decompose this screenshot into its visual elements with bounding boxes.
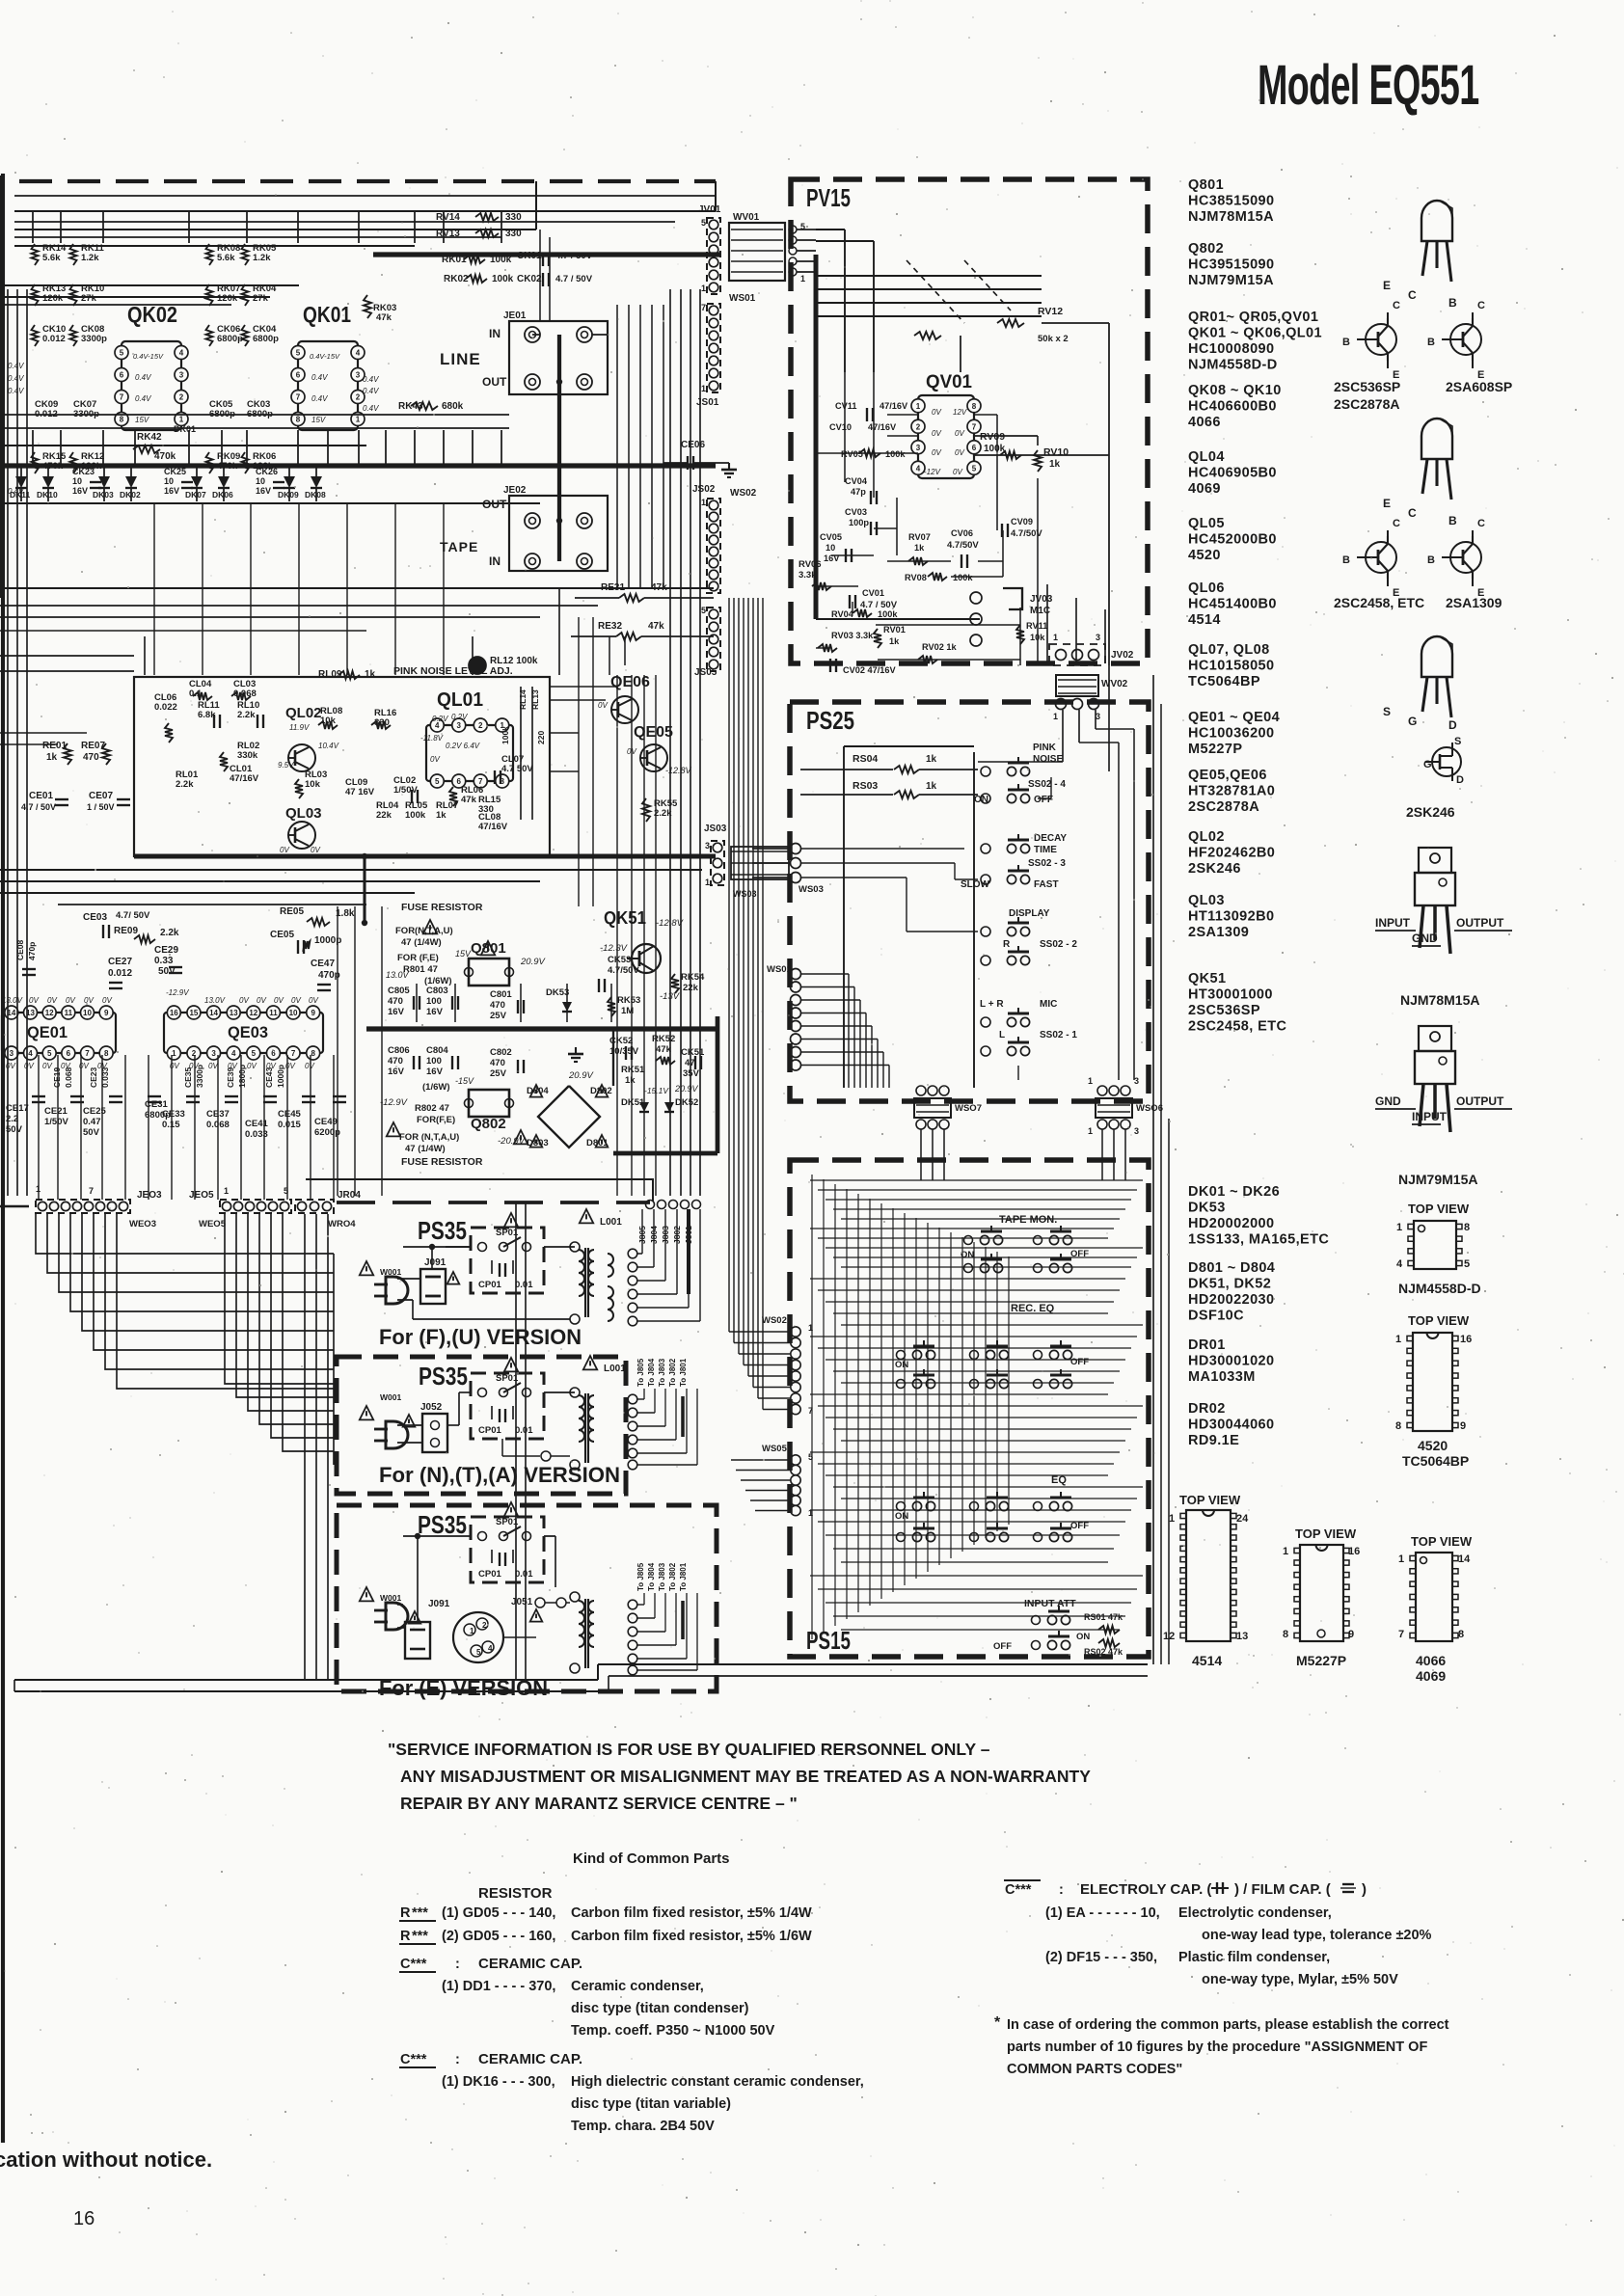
svg-text:To J805: To J805 <box>636 1358 645 1387</box>
svg-text:16V: 16V <box>426 1007 444 1017</box>
svg-text:QK51: QK51 <box>604 908 646 928</box>
svg-text:TOP VIEW: TOP VIEW <box>1411 1534 1473 1549</box>
svg-text:4066: 4066 <box>1188 415 1221 430</box>
svg-text:To J801: To J801 <box>679 1562 688 1591</box>
svg-text:FOR (N,T,A,U): FOR (N,T,A,U) <box>399 1132 459 1143</box>
svg-text:-12.9V: -12.9V <box>166 988 189 997</box>
svg-text:C806: C806 <box>388 1045 410 1056</box>
svg-text:CE45: CE45 <box>278 1109 301 1120</box>
svg-text:RV06: RV06 <box>798 559 822 570</box>
svg-text:Ceramic condenser,: Ceramic condenser, <box>571 1979 704 1994</box>
svg-text:47/16V: 47/16V <box>868 422 897 432</box>
svg-text:10: 10 <box>289 1009 298 1017</box>
svg-text:CE47: CE47 <box>311 959 335 969</box>
svg-text:JR04: JR04 <box>338 1190 361 1201</box>
svg-text::: : <box>455 2052 460 2067</box>
svg-text:DSF10C: DSF10C <box>1188 1309 1244 1324</box>
svg-text:3: 3 <box>916 444 921 452</box>
svg-text:12: 12 <box>1163 1631 1175 1642</box>
svg-text:HT30001000: HT30001000 <box>1188 987 1273 1003</box>
svg-text:HT328781A0: HT328781A0 <box>1188 784 1275 799</box>
svg-text:0V: 0V <box>309 996 318 1005</box>
svg-text:16: 16 <box>1348 1546 1360 1557</box>
svg-text:QL01: QL01 <box>437 689 483 711</box>
svg-text:100: 100 <box>426 1056 442 1067</box>
svg-text:0.4V: 0.4V <box>363 375 379 384</box>
svg-text:47k: 47k <box>461 795 477 805</box>
svg-text:HC406600B0: HC406600B0 <box>1188 399 1277 415</box>
svg-text:QL05: QL05 <box>1188 516 1225 531</box>
svg-text:2: 2 <box>482 1621 487 1630</box>
svg-text:OUTPUT: OUTPUT <box>1456 916 1504 930</box>
svg-text:5: 5 <box>47 1049 52 1058</box>
svg-text:L001: L001 <box>600 1217 622 1228</box>
svg-text:-11.8V: -11.8V <box>420 734 444 743</box>
svg-text:FOR(N,T,A,U): FOR(N,T,A,U) <box>395 926 453 936</box>
svg-text:13: 13 <box>230 1009 238 1017</box>
svg-text:Temp. chara. 2B4 50V: Temp. chara. 2B4 50V <box>571 2119 715 2134</box>
svg-text:330k: 330k <box>237 750 258 761</box>
svg-text:In case of ordering the c: In case of ordering the common parts, pl… <box>1007 2017 1449 2033</box>
svg-text:0.2V: 0.2V <box>432 715 448 723</box>
svg-text:4069: 4069 <box>1416 1668 1446 1684</box>
svg-text:7: 7 <box>1398 1629 1404 1640</box>
svg-text:REPAIR BY ANY MARANTZ SERVICE: REPAIR BY ANY MARANTZ SERVICE CENTRE – " <box>400 1794 798 1813</box>
svg-text:(1) EA - - - - - - 10,: (1) EA - - - - - - 10, <box>1045 1905 1160 1921</box>
svg-text:JV03: JV03 <box>1030 594 1053 605</box>
svg-text:1: 1 <box>701 498 706 507</box>
svg-text:CK01: CK01 <box>517 251 542 261</box>
svg-text:1: 1 <box>1053 712 1058 721</box>
svg-text:47k: 47k <box>376 312 392 323</box>
svg-text:15V: 15V <box>311 416 326 424</box>
svg-text:ON: ON <box>895 1511 908 1522</box>
svg-text:2SC2878A: 2SC2878A <box>1188 799 1259 815</box>
svg-text:RV14: RV14 <box>436 212 460 223</box>
svg-text:M5227P: M5227P <box>1188 742 1242 757</box>
svg-text:1k: 1k <box>1049 459 1061 470</box>
svg-text:WEO5: WEO5 <box>199 1219 227 1229</box>
svg-text:4: 4 <box>356 349 361 358</box>
svg-text:7: 7 <box>291 1049 296 1058</box>
svg-text:6: 6 <box>120 371 124 380</box>
svg-text:SLOW: SLOW <box>961 879 990 890</box>
svg-text:CV02 47/16V: CV02 47/16V <box>843 665 897 675</box>
svg-text:120k: 120k <box>42 293 64 304</box>
svg-text:5: 5 <box>120 349 124 358</box>
svg-text:4.7 50V: 4.7 50V <box>501 764 533 774</box>
svg-text:RE31: RE31 <box>601 582 625 593</box>
svg-text:10: 10 <box>164 476 174 486</box>
svg-text:-15V: -15V <box>455 1076 474 1086</box>
svg-text:To J801: To J801 <box>679 1358 688 1387</box>
svg-text:CP01: CP01 <box>478 1280 501 1290</box>
svg-text:2SA608SP: 2SA608SP <box>1446 379 1512 394</box>
svg-text:47 (1/4W): 47 (1/4W) <box>405 1144 446 1154</box>
svg-text:6: 6 <box>972 444 977 452</box>
svg-text:QK51: QK51 <box>1188 971 1226 986</box>
svg-text:16V: 16V <box>426 1067 444 1077</box>
svg-text:WRO4: WRO4 <box>328 1219 356 1229</box>
svg-text:47 (1/4W): 47 (1/4W) <box>401 937 442 948</box>
svg-text:20.9V: 20.9V <box>674 1084 699 1094</box>
svg-text:PINK NOISE LEVEL ADJ.: PINK NOISE LEVEL ADJ. <box>393 665 513 677</box>
svg-text:1/50V: 1/50V <box>393 785 418 796</box>
svg-text:RESISTOR: RESISTOR <box>478 1885 553 1902</box>
svg-text:Q801: Q801 <box>1188 177 1224 193</box>
svg-text:RV04: RV04 <box>831 609 854 619</box>
svg-text:0V: 0V <box>955 448 964 457</box>
svg-text:RK51: RK51 <box>621 1065 645 1075</box>
svg-text:-15.1V: -15.1V <box>644 1086 669 1095</box>
svg-text:470k: 470k <box>154 451 176 462</box>
svg-text:7: 7 <box>89 1186 94 1196</box>
svg-text:CE29: CE29 <box>154 945 178 956</box>
svg-text:NJM4558D-D: NJM4558D-D <box>1188 358 1278 373</box>
svg-text:0.4V: 0.4V <box>311 373 328 382</box>
svg-text:To J803: To J803 <box>658 1358 666 1387</box>
svg-text:***: *** <box>412 1929 428 1944</box>
svg-text:DK09: DK09 <box>278 490 299 500</box>
svg-text:HD20002000: HD20002000 <box>1188 1216 1274 1231</box>
svg-text:DK01 ~ DK26: DK01 ~ DK26 <box>1188 1184 1280 1200</box>
svg-text:SP01: SP01 <box>496 1228 519 1238</box>
svg-text:CP01: CP01 <box>478 1425 501 1436</box>
svg-text:Model EQ551: Model EQ551 <box>1258 55 1479 117</box>
svg-text:100k: 100k <box>492 274 514 284</box>
svg-text:4.7/50V: 4.7/50V <box>947 540 979 551</box>
svg-text:SS02 - 4: SS02 - 4 <box>1028 779 1066 790</box>
svg-text:0V: 0V <box>239 996 249 1005</box>
svg-text:SP01: SP01 <box>496 1373 519 1384</box>
svg-text:S: S <box>1383 705 1391 718</box>
svg-text:3: 3 <box>1134 1126 1139 1136</box>
svg-text:CK02: CK02 <box>517 274 542 284</box>
svg-text:DK03: DK03 <box>93 490 114 500</box>
svg-text:5: 5 <box>476 1648 481 1657</box>
svg-text:CE39: CE39 <box>226 1067 235 1088</box>
svg-text:0.068: 0.068 <box>64 1067 73 1088</box>
svg-text:B: B <box>1427 554 1435 566</box>
svg-text:NJM78M15A: NJM78M15A <box>1400 992 1479 1008</box>
svg-text:4.7 / 50V: 4.7 / 50V <box>555 251 593 261</box>
svg-text:C803: C803 <box>426 986 448 996</box>
svg-text:C: C <box>1408 288 1417 302</box>
svg-text:470: 470 <box>83 752 99 763</box>
svg-text:TOP VIEW: TOP VIEW <box>1179 1493 1241 1507</box>
svg-text:RV01: RV01 <box>883 625 906 635</box>
svg-text:3: 3 <box>1096 633 1100 642</box>
svg-text:0.012: 0.012 <box>42 334 66 344</box>
svg-text:CE03: CE03 <box>83 912 107 923</box>
svg-text:2SC536SP: 2SC536SP <box>1188 1003 1260 1018</box>
svg-text:Kind of Common Parts: Kind of Common Parts <box>573 1850 730 1867</box>
svg-text:RE32: RE32 <box>598 621 622 632</box>
svg-text:(1/6W): (1/6W) <box>422 1082 450 1093</box>
svg-text:"SERVICE INFORMATION IS FOR US: "SERVICE INFORMATION IS FOR USE BY QUALI… <box>388 1740 990 1759</box>
svg-text:3.3k: 3.3k <box>798 570 817 581</box>
svg-text:1: 1 <box>1169 1513 1175 1525</box>
svg-text:1.2k: 1.2k <box>253 253 271 263</box>
svg-text:5.6k: 5.6k <box>42 253 61 263</box>
svg-text:RL12 100k: RL12 100k <box>490 656 538 666</box>
svg-text:4514: 4514 <box>1188 612 1221 628</box>
svg-text:1k: 1k <box>926 781 937 792</box>
svg-text:HC10008090: HC10008090 <box>1188 341 1274 357</box>
svg-text:5: 5 <box>1464 1258 1470 1270</box>
svg-text:QR01~ QR05,QV01: QR01~ QR05,QV01 <box>1188 310 1318 325</box>
svg-text:0V: 0V <box>102 996 112 1005</box>
svg-text:CV06: CV06 <box>951 528 973 538</box>
svg-text:QE01: QE01 <box>27 1023 68 1041</box>
svg-text:0V: 0V <box>932 408 941 417</box>
svg-text:QL02: QL02 <box>285 705 322 721</box>
svg-text:TIME: TIME <box>1034 845 1057 855</box>
svg-text:C***: C*** <box>400 1957 427 1972</box>
svg-text:16V: 16V <box>256 486 271 496</box>
svg-text:C801: C801 <box>490 989 512 1000</box>
svg-text:B: B <box>1342 554 1350 566</box>
svg-text:JV01: JV01 <box>698 204 721 215</box>
svg-text:4: 4 <box>916 464 921 473</box>
svg-text:3: 3 <box>10 1049 14 1058</box>
svg-text:SP01: SP01 <box>496 1517 519 1527</box>
svg-text:50V: 50V <box>83 1127 100 1138</box>
svg-text:0.022: 0.022 <box>154 702 177 713</box>
svg-text:0.4V-15V: 0.4V-15V <box>310 352 340 361</box>
svg-text:16V: 16V <box>388 1007 405 1017</box>
svg-text:OFF: OFF <box>1070 1521 1089 1531</box>
svg-text:1k: 1k <box>889 636 900 646</box>
svg-text:QL03: QL03 <box>1188 893 1225 908</box>
svg-text:NJM79M15A: NJM79M15A <box>1188 273 1274 288</box>
svg-text:(1) GD05 - - - 140,: (1) GD05 - - - 140, <box>442 1905 555 1921</box>
svg-text:DK53: DK53 <box>546 987 569 998</box>
svg-text:SS02 - 3: SS02 - 3 <box>1028 858 1066 869</box>
svg-text:PS35: PS35 <box>418 1216 467 1245</box>
svg-text:(1) DD1 - - - - 370,: (1) DD1 - - - - 370, <box>442 1979 555 1994</box>
svg-text:WSO7: WSO7 <box>955 1103 982 1114</box>
svg-text:B: B <box>1448 514 1457 527</box>
svg-text:C802: C802 <box>490 1047 512 1058</box>
svg-text:2SA1309: 2SA1309 <box>1446 595 1502 610</box>
svg-text:QL06: QL06 <box>1188 581 1225 596</box>
svg-text:1k: 1k <box>46 752 58 763</box>
svg-text:1: 1 <box>1053 633 1058 642</box>
svg-text:Temp. coeff. P350 ~ N1000 50V: Temp. coeff. P350 ~ N1000 50V <box>571 2023 775 2039</box>
svg-text:HC452000B0: HC452000B0 <box>1188 532 1277 548</box>
svg-text:RK01: RK01 <box>442 255 467 265</box>
svg-text:1: 1 <box>224 1186 229 1196</box>
svg-text:HD20022030: HD20022030 <box>1188 1292 1274 1308</box>
svg-text:1SS133, MA165,ETC: 1SS133, MA165,ETC <box>1188 1232 1329 1248</box>
svg-text:ELECTROLY CAP. (: ELECTROLY CAP. ( <box>1080 1881 1211 1898</box>
svg-text:47k: 47k <box>651 582 667 593</box>
svg-text:5: 5 <box>701 606 706 615</box>
svg-text:RV13: RV13 <box>436 229 460 239</box>
svg-text:5: 5 <box>296 349 301 358</box>
svg-text:OUT: OUT <box>482 498 507 511</box>
svg-text:RK54: RK54 <box>681 972 705 983</box>
svg-text:47k: 47k <box>656 1044 672 1055</box>
svg-text:1: 1 <box>701 384 706 393</box>
svg-text:0.4V: 0.4V <box>363 404 379 413</box>
svg-text:RK42: RK42 <box>137 432 162 443</box>
svg-text:9: 9 <box>1460 1420 1466 1432</box>
svg-text:470p: 470p <box>318 970 340 981</box>
svg-text:4: 4 <box>179 349 184 358</box>
svg-text:CE41: CE41 <box>245 1119 268 1129</box>
svg-text:11.9V: 11.9V <box>289 723 310 732</box>
svg-text:disc type (titan variable): disc type (titan variable) <box>571 2096 731 2112</box>
svg-text:DK07: DK07 <box>185 490 206 500</box>
svg-text:2: 2 <box>356 393 361 402</box>
svg-text:0.4V: 0.4V <box>8 374 24 383</box>
svg-text:C***: C*** <box>1005 1882 1032 1898</box>
svg-text:FUSE RESISTOR: FUSE RESISTOR <box>401 902 483 913</box>
svg-text:cation without notice.: cation without notice. <box>0 2147 212 2172</box>
svg-text:10: 10 <box>826 543 835 553</box>
svg-text:0V: 0V <box>29 996 39 1005</box>
svg-text:-12.8V: -12.8V <box>665 766 692 775</box>
svg-text:13.0V: 13.0V <box>386 970 410 980</box>
svg-text:-13V: -13V <box>660 991 681 1002</box>
svg-text:): ) <box>1362 1881 1367 1898</box>
svg-text:25V: 25V <box>490 1068 507 1079</box>
svg-text:9.5V: 9.5V <box>278 761 294 770</box>
svg-text:To J803: To J803 <box>658 1562 666 1591</box>
svg-text:CE05: CE05 <box>270 930 294 940</box>
svg-text:5: 5 <box>435 777 440 786</box>
svg-text:0.47: 0.47 <box>83 1117 101 1127</box>
svg-text:0V: 0V <box>932 448 941 457</box>
svg-text:WSO6: WSO6 <box>1136 1103 1163 1114</box>
svg-text:HC10036200: HC10036200 <box>1188 726 1274 742</box>
svg-text:16: 16 <box>170 1009 178 1017</box>
svg-text:FOR (F,E): FOR (F,E) <box>397 953 439 963</box>
svg-text:DK02: DK02 <box>120 490 141 500</box>
svg-text:TOP VIEW: TOP VIEW <box>1295 1526 1357 1541</box>
svg-text:2SK246: 2SK246 <box>1188 861 1241 877</box>
svg-text:HC10158050: HC10158050 <box>1188 659 1274 674</box>
svg-text:PS35: PS35 <box>418 1510 467 1539</box>
svg-text:0.4V: 0.4V <box>311 394 328 403</box>
svg-text:D: D <box>1456 774 1464 786</box>
svg-text:To J805: To J805 <box>636 1562 645 1591</box>
svg-text:LINE: LINE <box>440 350 481 368</box>
svg-text:RV03 3.3k: RV03 3.3k <box>831 631 874 640</box>
svg-text:1k: 1k <box>365 669 376 680</box>
svg-text:100k: 100k <box>490 255 512 265</box>
svg-text:CE06: CE06 <box>681 440 705 450</box>
svg-text::: : <box>1059 1882 1064 1898</box>
svg-text:D: D <box>1448 718 1457 732</box>
svg-text:470: 470 <box>388 1056 403 1067</box>
svg-text:To J802: To J802 <box>668 1562 677 1591</box>
svg-text:4514: 4514 <box>1192 1653 1222 1668</box>
svg-text:16V: 16V <box>72 486 88 496</box>
svg-text:8: 8 <box>120 416 124 424</box>
svg-text:470: 470 <box>490 1000 505 1011</box>
svg-text:OFF: OFF <box>1034 795 1053 805</box>
svg-text:WS01: WS01 <box>729 293 756 304</box>
svg-text:JV02: JV02 <box>1111 650 1134 661</box>
svg-text:4066: 4066 <box>1416 1653 1446 1668</box>
svg-text::: : <box>455 1957 460 1972</box>
svg-text:1: 1 <box>916 402 921 411</box>
svg-text:one-way type, Mylar, ±5% 50V: one-way type, Mylar, ±5% 50V <box>1202 1972 1398 1987</box>
svg-text:To J804: To J804 <box>647 1562 656 1591</box>
svg-text:5: 5 <box>972 464 977 473</box>
svg-text:2: 2 <box>478 721 483 730</box>
svg-text:0V: 0V <box>598 701 608 710</box>
svg-text:E: E <box>1383 279 1391 292</box>
svg-text:WV01: WV01 <box>733 212 760 223</box>
svg-text:COMMON PARTS CODES": COMMON PARTS CODES" <box>1007 2062 1182 2077</box>
svg-text:4.7 / 50V: 4.7 / 50V <box>555 274 593 284</box>
svg-text:15: 15 <box>189 1009 198 1017</box>
svg-text:0.01: 0.01 <box>515 1569 533 1580</box>
svg-text:1: 1 <box>36 1184 41 1194</box>
svg-text:5.6k: 5.6k <box>217 253 235 263</box>
svg-text:NJM78M15A: NJM78M15A <box>1188 209 1274 225</box>
svg-text:22k: 22k <box>683 983 699 993</box>
svg-text:3: 3 <box>356 371 361 380</box>
svg-text:DK01: DK01 <box>174 424 196 434</box>
svg-text:27k: 27k <box>253 293 269 304</box>
svg-text:7: 7 <box>296 393 301 402</box>
svg-text:330: 330 <box>505 212 522 223</box>
svg-text:B: B <box>1448 296 1457 310</box>
svg-text:TAPE MON.: TAPE MON. <box>999 1214 1057 1226</box>
svg-text:ON: ON <box>895 1360 908 1370</box>
svg-text:C: C <box>1408 506 1417 520</box>
svg-text:DK10: DK10 <box>37 490 58 500</box>
svg-text:WS02: WS02 <box>762 1315 787 1326</box>
svg-text:QK08 ~ QK10: QK08 ~ QK10 <box>1188 383 1282 398</box>
svg-text:0V: 0V <box>291 996 301 1005</box>
svg-text:QK01: QK01 <box>303 302 351 327</box>
svg-text:27k: 27k <box>81 293 97 304</box>
svg-text:100k: 100k <box>405 810 426 821</box>
svg-text:S: S <box>1454 736 1461 747</box>
svg-text:7: 7 <box>120 393 124 402</box>
svg-text:6: 6 <box>296 371 301 380</box>
svg-text:RS01 47k: RS01 47k <box>1084 1612 1123 1622</box>
svg-text:15V: 15V <box>455 949 472 959</box>
svg-text:5: 5 <box>284 1186 288 1196</box>
svg-text:IN: IN <box>489 327 501 340</box>
svg-text:RE01: RE01 <box>42 741 67 751</box>
svg-text:1: 1 <box>470 1627 474 1635</box>
svg-text:QE03: QE03 <box>228 1023 268 1041</box>
svg-text:16V: 16V <box>388 1067 405 1077</box>
svg-text:CV11: CV11 <box>835 401 856 411</box>
svg-text:R802 47: R802 47 <box>415 1103 449 1114</box>
svg-text:PS35: PS35 <box>419 1362 468 1391</box>
svg-text:OUTPUT: OUTPUT <box>1456 1094 1504 1108</box>
svg-text:DK06: DK06 <box>212 490 233 500</box>
svg-text:JS02: JS02 <box>692 484 716 495</box>
svg-text:12: 12 <box>249 1009 257 1017</box>
svg-text:ANY MISADJUSTMENT OR MISALIGNM: ANY MISADJUSTMENT OR MISALIGNMENT MAY BE… <box>400 1767 1091 1786</box>
svg-text:100k: 100k <box>953 573 973 582</box>
svg-text:100k: 100k <box>885 449 906 459</box>
svg-text:0.012: 0.012 <box>108 968 132 979</box>
svg-text:13.0V: 13.0V <box>204 996 226 1005</box>
svg-text:Electrolytic condenser,: Electrolytic condenser, <box>1178 1905 1332 1921</box>
svg-text:WS03: WS03 <box>798 884 824 895</box>
